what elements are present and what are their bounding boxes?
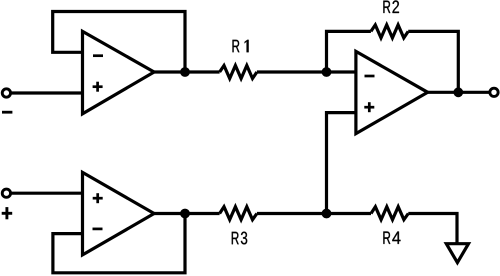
wire: R1 to U2 inverting input	[257, 70, 356, 73]
wire: R3 to R4	[257, 212, 371, 215]
wire: U1 output to R1	[153, 70, 219, 73]
input terminal (inverting)	[2, 89, 10, 97]
label R2	[383, 0, 399, 13]
wire: feedback node up to R2	[327, 31, 371, 72]
ground	[446, 244, 468, 263]
op-amp U3	[83, 172, 155, 255]
output terminal	[490, 88, 498, 96]
wire: R2 to output node	[408, 31, 458, 92]
wire: inverting input to U1 +	[11, 91, 83, 94]
op-amp U2	[356, 51, 428, 133]
wire: U3 feedback loop	[53, 212, 185, 273]
wire: non-inverting input to U3 +	[11, 192, 83, 195]
node: U3 output	[180, 209, 190, 219]
op-amp U1	[83, 31, 155, 113]
resistor R4	[371, 207, 408, 220]
input terminal (non-inverting)	[2, 189, 10, 197]
label R3	[232, 232, 247, 245]
node: U1 output	[180, 67, 190, 77]
node: U2 inverting input	[322, 67, 332, 77]
wire: U2 output	[427, 91, 490, 94]
resistor R2	[371, 25, 408, 38]
label R4	[383, 232, 400, 244]
wire: R4 to ground	[408, 214, 457, 245]
wire: U2 non-inverting input down to bottom node	[327, 113, 357, 214]
label + (plus input)	[2, 207, 13, 219]
label R1	[233, 40, 249, 52]
resistor R1	[220, 66, 257, 79]
node: R3/R4 junction	[322, 209, 332, 219]
wire: U1 feedback loop	[53, 12, 185, 74]
wire: U3 output to R3	[153, 212, 219, 215]
resistor R3	[220, 207, 257, 220]
label - (minus input)	[2, 111, 12, 114]
node: amplifier output	[453, 87, 463, 97]
